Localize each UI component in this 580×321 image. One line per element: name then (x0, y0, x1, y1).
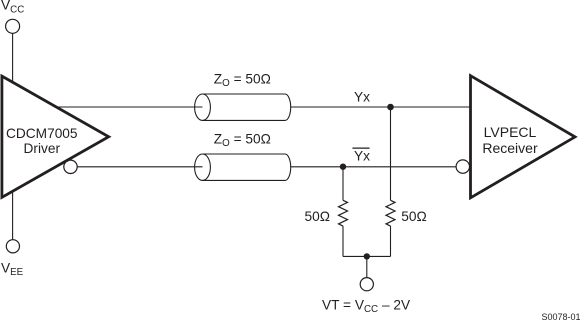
transmission line W1 cylinder (195, 94, 291, 120)
svg-text:Yx: Yx (354, 89, 370, 104)
node Yx-bar label with overline (352, 148, 370, 163)
svg-text:LVPECL: LVPECL (484, 124, 537, 140)
wire TL2 to receiver bubble (node Yx-bar) (291, 166, 462, 168)
VEE terminal (6, 240, 19, 253)
svg-text:50Ω: 50Ω (305, 209, 330, 224)
transmission line W2 cylinder (195, 154, 291, 180)
wire driver upper output to TL1 (54, 106, 203, 108)
resistor R2 50ohm (right, from Yx) (386, 107, 395, 256)
net VCC label (1, 0, 24, 15)
receiver U2 label (482, 124, 538, 156)
svg-text:50Ω: 50Ω (401, 209, 426, 224)
svg-text:Yx: Yx (354, 148, 370, 163)
node Yx label (354, 89, 370, 104)
W2 value label ZO = 50ohm (214, 131, 271, 149)
junction on Yx-bar (340, 164, 346, 170)
junction on Yx (387, 104, 394, 111)
svg-text:S0078-01: S0078-01 (541, 312, 580, 321)
VT net label VT = VCC - 2V (322, 298, 411, 316)
VT terminal (360, 278, 373, 291)
wire VCC to driver (12, 33, 14, 90)
junction on bottom rail (364, 253, 370, 259)
W1 value label ZO = 50ohm (214, 71, 271, 89)
svg-text:Receiver: Receiver (482, 140, 538, 156)
wire driver lower output to TL2 (72, 166, 203, 168)
R2 value label 50ohm (401, 209, 426, 224)
receiver U2 triangle (471, 76, 576, 198)
figure code S0078-01 (541, 312, 580, 321)
R1 value label 50ohm (305, 209, 330, 224)
wire bottom rail joining R1 and R2 (343, 255, 391, 257)
VCC terminal (6, 19, 20, 33)
driver U1 triangle (2, 76, 109, 197)
resistor R1 50ohm (left, from Yx-bar) (339, 167, 348, 257)
wire TL1 to receiver (node Yx) (291, 106, 471, 108)
svg-text:Driver: Driver (24, 141, 61, 156)
receiver U2 input bubble (456, 160, 469, 173)
net VEE label (1, 260, 24, 278)
driver U1 label (6, 126, 78, 156)
driver inverting output bubble (64, 160, 77, 173)
svg-text:CDCM7005: CDCM7005 (6, 126, 78, 141)
wire junction to VT terminal (366, 256, 368, 277)
wire driver to VEE (12, 188, 14, 240)
